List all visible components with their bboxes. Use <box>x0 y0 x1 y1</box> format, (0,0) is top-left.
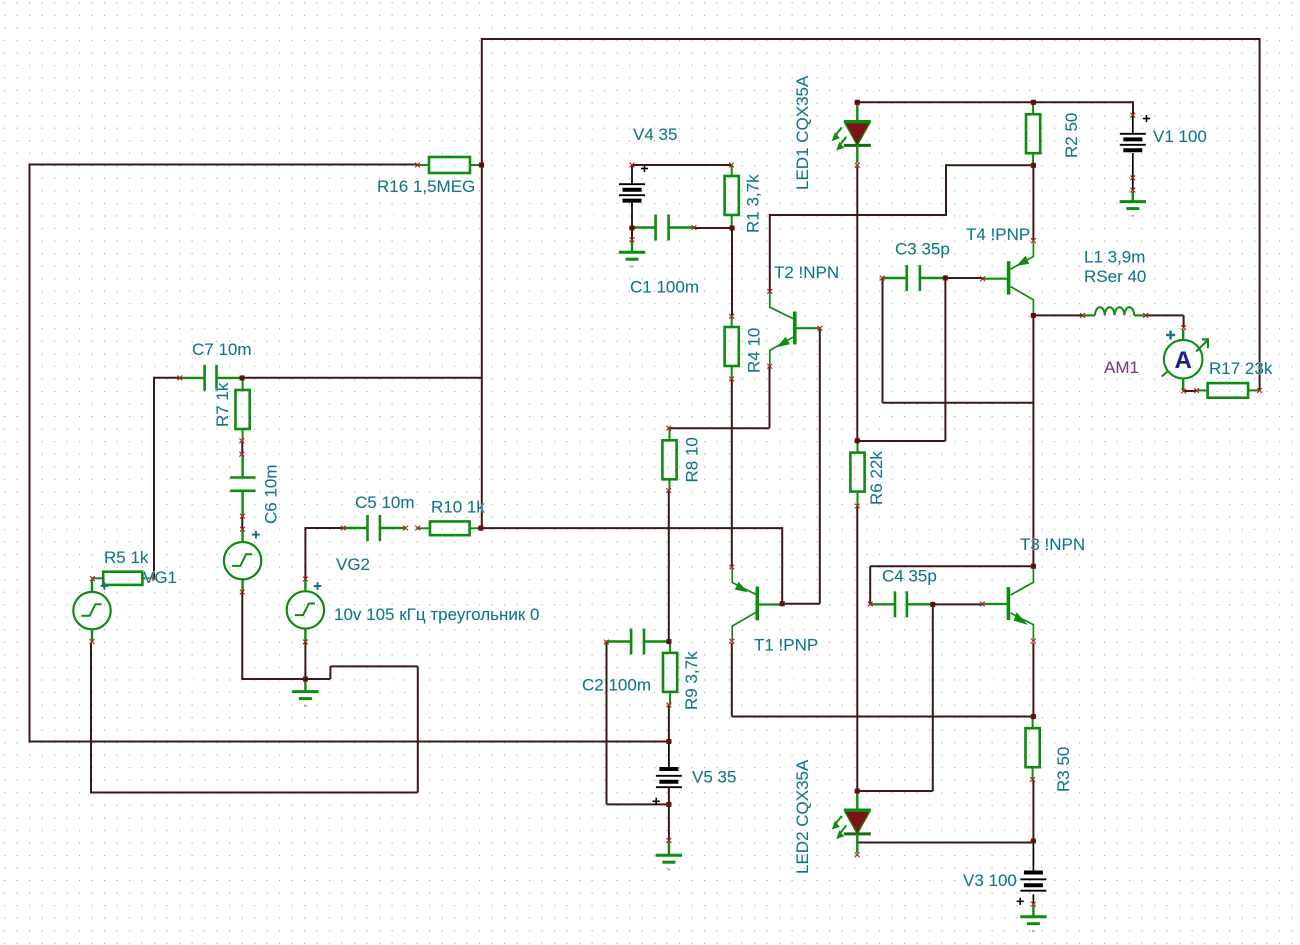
svg-text:R2 50: R2 50 <box>1062 113 1081 158</box>
svg-text:C3 35p: C3 35p <box>895 240 950 259</box>
svg-text:R1 3,7k: R1 3,7k <box>744 174 763 233</box>
svg-text:LED1 CQX35A: LED1 CQX35A <box>793 75 812 190</box>
svg-text:V1 100: V1 100 <box>1153 127 1207 146</box>
svg-text:C2 100m: C2 100m <box>582 676 651 695</box>
svg-text:V5 35: V5 35 <box>692 767 736 786</box>
svg-text:R8 10: R8 10 <box>683 437 702 482</box>
svg-text:C4 35p: C4 35p <box>882 567 937 586</box>
svg-text:T3 !NPN: T3 !NPN <box>1020 535 1085 554</box>
svg-text:R6 22k: R6 22k <box>867 451 886 505</box>
svg-text:VG1: VG1 <box>143 568 177 587</box>
svg-text:A: A <box>1175 347 1192 374</box>
svg-text:10v 105 кГц треугольник 0: 10v 105 кГц треугольник 0 <box>334 605 540 624</box>
svg-text:C1 100m: C1 100m <box>630 278 699 297</box>
svg-text:L1 3,9m: L1 3,9m <box>1084 248 1145 267</box>
svg-text:C6 10m: C6 10m <box>262 464 281 524</box>
svg-text:R5 1k: R5 1k <box>104 548 149 567</box>
svg-text:R3 50: R3 50 <box>1054 747 1073 792</box>
svg-text:R4 10: R4 10 <box>745 328 764 373</box>
svg-text:R7 1k: R7 1k <box>213 382 232 427</box>
svg-text:V4 35: V4 35 <box>633 125 677 144</box>
svg-text:AM1: AM1 <box>1104 358 1139 377</box>
svg-text:R9 3,7k: R9 3,7k <box>682 651 701 710</box>
svg-text:C7 10m: C7 10m <box>192 340 252 359</box>
svg-text:R10 1k: R10 1k <box>431 498 485 517</box>
svg-text:R17 23k: R17 23k <box>1209 359 1273 378</box>
svg-text:C5 10m: C5 10m <box>355 493 415 512</box>
svg-text:VG2: VG2 <box>336 555 370 574</box>
svg-text:RSer 40: RSer 40 <box>1084 267 1146 286</box>
svg-text:T4 !PNP: T4 !PNP <box>966 225 1030 244</box>
svg-text:LED2 CQX35A: LED2 CQX35A <box>793 759 812 874</box>
svg-text:R16 1,5MEG: R16 1,5MEG <box>377 177 475 196</box>
svg-text:V3 100: V3 100 <box>963 871 1017 890</box>
svg-text:T2 !NPN: T2 !NPN <box>774 263 839 282</box>
svg-text:T1 !PNP: T1 !PNP <box>754 636 818 655</box>
